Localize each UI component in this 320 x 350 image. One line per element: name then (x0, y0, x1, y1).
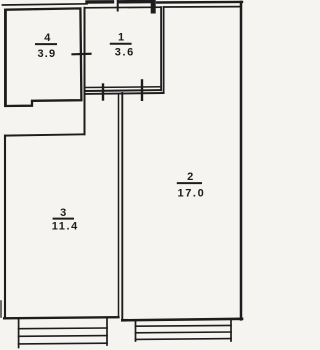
paper background (0, 0, 248, 350)
room 2 bottom wall (122, 319, 242, 321)
svg-text:2: 2 (187, 171, 193, 183)
svg-text:3: 3 (60, 207, 66, 219)
fraction bar room 4 label (36, 43, 56, 45)
room 1 right wall (160, 7, 162, 90)
room 2 right wall (outer) (240, 2, 243, 319)
right balcony rail 3 (136, 338, 232, 341)
svg-text:1: 1 (118, 32, 124, 44)
room 3 left wall (outer) (4, 136, 6, 318)
outer top wall thick bar (middle 2) (119, 0, 138, 3)
room 4 outline (5, 8, 81, 106)
svg-text:17.0: 17.0 (177, 188, 205, 200)
corridor upper wall line (85, 89, 162, 92)
right balcony rail 2 (136, 331, 232, 334)
outer top wall line (left thin part) (3, 4, 88, 5)
tick crossing top wall (117, 0, 119, 11)
wall room4/room1 right line + hallway west wall (84, 8, 86, 135)
left balcony rail 2 (19, 335, 107, 338)
left edge scan smudge (0, 301, 2, 317)
corridor lower wall line (85, 92, 164, 95)
room 2 left wall upper part (163, 7, 165, 93)
thick tick crossing top wall (151, 0, 156, 11)
right balcony left post (135, 320, 137, 341)
tick crossing room4/room1 wall (73, 53, 91, 56)
room 1 bottom wall (85, 86, 161, 89)
outer top wall thick bar (middle) (87, 0, 113, 4)
fraction bar room 3 label (54, 218, 73, 220)
left balcony left post (18, 320, 20, 348)
tick crossing corridor wall right (141, 80, 143, 99)
svg-text:11.4: 11.4 (52, 221, 79, 233)
right balcony right post (230, 319, 232, 341)
room 2 top wall (164, 6, 241, 8)
room 1 top wall (85, 6, 162, 9)
room 3 bottom wall (4, 317, 118, 318)
fraction bar room 1 label (111, 43, 131, 45)
fraction bar room 2 label (178, 182, 201, 184)
svg-text:3.6: 3.6 (115, 46, 135, 58)
tick crossing corridor wall left (102, 85, 104, 100)
left balcony rail 1 (19, 327, 107, 330)
outer top wall line (right part) (157, 1, 242, 4)
left balcony right post (106, 318, 108, 345)
right balcony rail 1 (136, 324, 232, 327)
room 3 / room 2 dividing wall right line (121, 93, 123, 320)
left balcony rail 3 (19, 342, 107, 345)
room 3 top wall (5, 134, 85, 135)
room 4 left wall reinforcement (4, 10, 7, 106)
room 3 / room 2 dividing wall left line (118, 94, 120, 318)
svg-text:4: 4 (44, 32, 51, 44)
outer top wall thick bar (middle 3) (141, 0, 151, 3)
svg-text:3.9: 3.9 (37, 48, 56, 60)
